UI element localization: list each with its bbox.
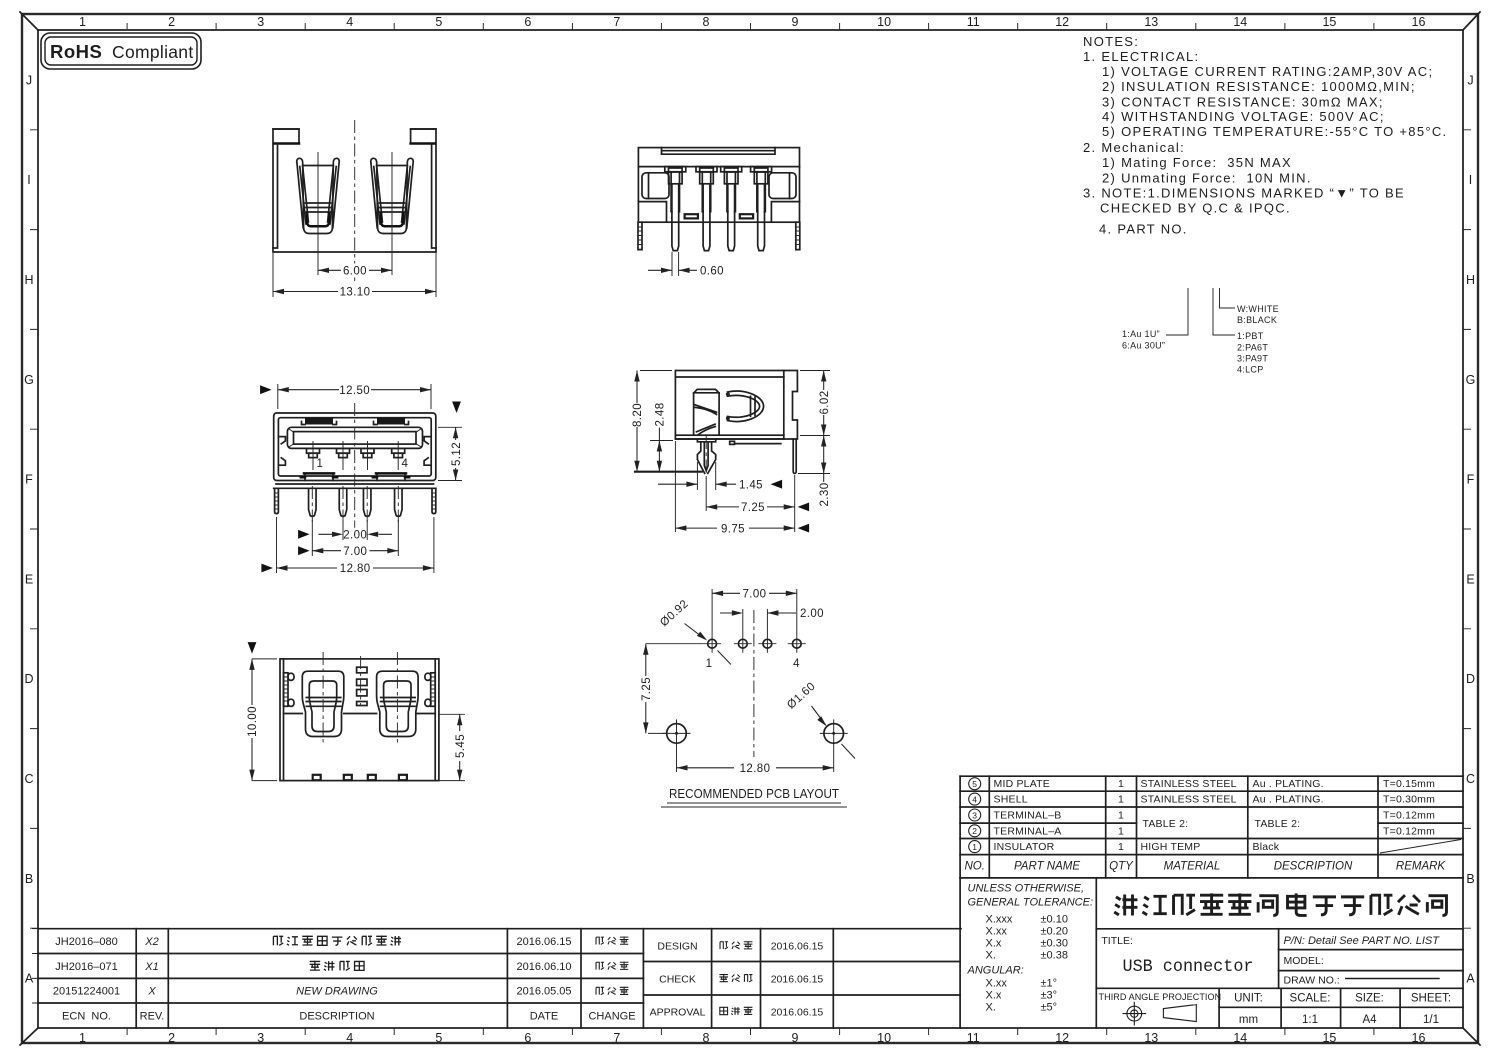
seating plane line [635,471,702,473]
revision table [32,929,961,1028]
svg-text:7: 7 [613,15,620,29]
svg-text:2016.06.15: 2016.06.15 [771,940,824,952]
svg-text:9: 9 [792,15,799,29]
svg-text:9.75: 9.75 [721,523,745,535]
left side cutout [642,173,669,199]
svg-text:J: J [1467,73,1473,87]
svg-text:HIGH TEMP: HIGH TEMP [1141,841,1201,853]
svg-text:C: C [24,772,33,786]
RoHS Compliant logo box [41,33,201,69]
svg-text:DATE: DATE [530,1011,559,1023]
svg-text:TERMINAL–B: TERMINAL–B [994,810,1062,822]
dimension 7.25 [639,644,666,734]
svg-text:4: 4 [346,1031,353,1045]
svg-text:10: 10 [877,1031,891,1045]
svg-text:2. Mechanical:: 2. Mechanical: [1083,140,1185,155]
svg-text:W:WHITE: W:WHITE [1237,304,1279,314]
grid column numbers top and ticks [79,15,1425,30]
svg-text:Au . PLATING.: Au . PLATING. [1253,794,1324,806]
svg-text:3) CONTACT RESISTANCE: 30mΩ MA: 3) CONTACT RESISTANCE: 30mΩ MAX; [1102,95,1384,110]
shell outer rect [274,413,436,481]
dimension 7.25 [706,478,809,514]
svg-text:X: X [147,986,156,998]
waist lines [284,713,436,715]
svg-text:X1: X1 [144,961,158,973]
svg-text:7.00: 7.00 [343,546,367,558]
svg-text:A: A [1466,972,1475,986]
svg-text:APPROVAL: APPROVAL [650,1006,706,1018]
svg-text:STAINLESS STEEL: STAINLESS STEEL [1141,778,1237,790]
svg-text:±0.38: ±0.38 [1041,950,1068,962]
svg-text:1.45: 1.45 [739,479,763,491]
center dash-dot line [753,610,755,757]
svg-text:8: 8 [703,15,710,29]
VIEW 2 back view with terminals [638,148,800,278]
svg-text:7: 7 [613,1031,620,1045]
svg-text:16: 16 [1412,1031,1426,1045]
terminals cross-sections [665,167,686,251]
body outline [273,129,436,252]
svg-text:7.00: 7.00 [743,589,767,601]
diameter 1.60 leader [785,680,855,758]
svg-text:G: G [24,373,34,387]
svg-text:±0.30: ±0.30 [1041,938,1068,950]
bottom band [675,435,783,439]
corner diagonal top-left [20,12,38,30]
svg-text:3. NOTE:1.DIMENSIONS MARKED “▼: 3. NOTE:1.DIMENSIONS MARKED “▼” TO BE [1083,185,1405,200]
dimension 6.00 [318,234,392,278]
VIEW 4 side view [631,371,831,536]
VIEW 3 front view [260,383,463,575]
dimension 7.00 [712,589,797,653]
svg-text:1: 1 [317,458,324,470]
svg-text:F: F [25,473,33,487]
svg-text:2.30: 2.30 [819,483,831,507]
svg-text:13: 13 [1144,1031,1158,1045]
svg-text:mm: mm [1239,1014,1258,1026]
svg-text:10: 10 [877,15,891,29]
dimension 12.80 [677,747,834,775]
svg-text:2) Unmating Force: 10N MIN.: 2) Unmating Force: 10N MIN. [1102,170,1312,185]
part number legend tree [1122,288,1279,375]
svg-text:6.00: 6.00 [343,266,367,278]
right tulip contact [371,152,414,234]
svg-text:0.60: 0.60 [700,266,724,278]
corner diagonal bottom-left [20,1028,38,1045]
svg-text:CHANGE: CHANGE [588,1011,635,1023]
solder pins [309,488,317,516]
svg-text:I: I [27,173,30,187]
svg-text:6: 6 [524,15,531,29]
svg-text:±0.10: ±0.10 [1041,914,1068,926]
svg-text:DRAW NO.:: DRAW NO.: [1284,975,1340,987]
svg-text:QTY: QTY [1109,861,1134,873]
svg-text:11: 11 [967,15,980,29]
bottom solder tabs [313,775,321,780]
svg-text:H: H [24,273,33,287]
svg-text:2: 2 [168,15,175,29]
grid column numbers bottom and ticks [79,1028,1425,1045]
right mounting leg [432,488,436,513]
svg-text:5: 5 [972,779,977,789]
row extension line [646,643,703,645]
svg-text:NEW DRAWING: NEW DRAWING [296,986,378,998]
svg-text:I: I [1469,173,1472,187]
svg-text:MATERIAL: MATERIAL [1164,861,1221,873]
svg-text:X.xx: X.xx [986,978,1008,990]
svg-text:2) INSULATION RESISTANCE: 1000: 2) INSULATION RESISTANCE: 1000MΩ,MIN; [1102,79,1416,94]
svg-text:X.xxx: X.xxx [986,914,1013,926]
left step [638,202,666,223]
inner side walls [273,144,436,249]
pin holes 0.92 [708,639,717,648]
svg-text:ECN NO.: ECN NO. [62,1011,111,1023]
svg-text:USB connector: USB connector [1123,957,1254,977]
svg-text:3: 3 [257,15,264,29]
svg-text:14: 14 [1233,1031,1247,1045]
dimension 2.00 [277,517,434,573]
shell inner rect [278,418,431,476]
svg-text:1: 1 [1118,810,1124,822]
side latch detail right [424,437,431,466]
right mounting flange [784,371,798,440]
svg-text:E: E [1466,572,1474,586]
right hatched bracket [425,673,435,707]
dimension 2.00 [720,608,824,653]
side latch detail left [278,437,285,466]
svg-text:10.00: 10.00 [247,706,259,737]
snap-in peg below [697,439,715,442]
svg-text:7.25: 7.25 [741,502,765,514]
svg-text:MID PLATE: MID PLATE [994,778,1050,790]
svg-text:±3°: ±3° [1041,990,1058,1002]
inspection marker above 5.12 [452,402,461,414]
small latch windows [685,214,698,218]
svg-text:1: 1 [1118,794,1124,806]
svg-text:5.45: 5.45 [455,734,467,758]
svg-text:13: 13 [1144,15,1158,29]
svg-text:4) WITHSTANDING VOLTAGE: 500V: 4) WITHSTANDING VOLTAGE: 500V AC; [1102,109,1385,124]
dimension 12.50 [278,383,431,409]
svg-text:12: 12 [1055,1031,1069,1045]
svg-text:5) OPERATING TEMPERATURE:-55°C: 5) OPERATING TEMPERATURE:-55°C TO +85°C. [1102,124,1447,139]
svg-text:Black: Black [1253,841,1280,853]
svg-text:JH2016–080: JH2016–080 [55,936,117,948]
svg-text:15: 15 [1322,1031,1336,1045]
svg-text:X.x: X.x [986,938,1002,950]
svg-text:2016.06.15: 2016.06.15 [516,936,571,948]
svg-text:P/N: Detail See PART NO. LIST: P/N: Detail See PART NO. LIST [1284,935,1441,947]
svg-text:CHECK: CHECK [659,973,696,985]
svg-text:12.80: 12.80 [340,563,371,575]
right side cutout [769,173,796,199]
svg-text:6.02: 6.02 [819,391,831,415]
center stack windows [357,656,367,706]
svg-text:5.12: 5.12 [451,442,463,466]
VIEW 5 top view [246,642,467,781]
svg-text:UNIT:: UNIT: [1234,993,1263,1005]
big hole left 1.60 [663,719,691,747]
svg-text:1: 1 [79,1031,86,1045]
svg-text:12.80: 12.80 [740,763,771,775]
left shell wing [302,671,344,736]
svg-text:GENERAL TOLERANCE:: GENERAL TOLERANCE: [968,897,1094,909]
dimension 5.12 [438,427,463,480]
approval block [643,929,960,1028]
company name (CJK) [1096,893,1463,928]
svg-text:8: 8 [703,1031,710,1045]
svg-text:6:Au 30U”: 6:Au 30U” [1122,341,1165,351]
svg-text:13.10: 13.10 [340,287,371,299]
dimension 10.00 [246,659,278,781]
svg-text:DESCRIPTION: DESCRIPTION [299,1011,374,1023]
dimension 6.02 [800,371,831,436]
svg-text:T=0.15mm: T=0.15mm [1383,778,1435,790]
corner diagonal bottom-right [1463,1028,1480,1045]
right step [771,202,799,223]
svg-text:X.: X. [986,950,996,962]
svg-text:REV.: REV. [140,1011,165,1023]
svg-text:4: 4 [346,15,353,29]
svg-text:X2: X2 [144,936,158,948]
right mounting leg [796,222,800,249]
left hatched bracket [284,673,295,707]
dimension 7.00 [298,544,398,558]
svg-text:14: 14 [1233,15,1247,29]
big hole right 1.60 [820,719,848,747]
svg-text:1: 1 [1118,778,1124,790]
svg-text:X.xx: X.xx [986,926,1008,938]
svg-text:UNLESS OTHERWISE,: UNLESS OTHERWISE, [968,883,1085,895]
VIEW 1 bottom view of connector [273,120,436,299]
svg-text:1: 1 [1118,841,1124,853]
svg-text:Compliant: Compliant [112,42,193,62]
svg-text:1: 1 [972,842,977,852]
tick marks top [127,23,1374,30]
svg-text:G: G [1466,373,1476,387]
svg-text:2:PA6T: 2:PA6T [1237,343,1268,353]
svg-text:JH2016–071: JH2016–071 [55,961,117,973]
svg-text:1: 1 [1118,825,1124,837]
top latch tabs (black) [305,418,333,425]
svg-text:2.48: 2.48 [655,403,667,427]
svg-text:1: 1 [79,15,86,29]
svg-text:C: C [1466,772,1475,786]
left tulip contact [297,152,340,234]
svg-text:12.50: 12.50 [339,385,370,397]
terminal block inside [694,389,720,435]
left mounting leg [275,488,279,513]
svg-text:1) VOLTAGE CURRENT RATING:2AMP: 1) VOLTAGE CURRENT RATING:2AMP,30V AC; [1102,64,1433,79]
svg-text:1:Au 1U”: 1:Au 1U” [1122,329,1160,339]
svg-text:MODEL:: MODEL: [1284,955,1324,967]
diameter 0.92 leader [658,598,731,665]
svg-text:SCALE:: SCALE: [1290,993,1331,1005]
svg-text:2016.06.10: 2016.06.10 [516,961,571,973]
svg-text:A4: A4 [1362,1014,1377,1026]
parts table [960,776,1463,878]
svg-text:1:1: 1:1 [1302,1014,1318,1026]
svg-text:NO.: NO. [964,861,984,873]
svg-text:2.00: 2.00 [800,608,824,620]
svg-text:2016.06.15: 2016.06.15 [771,973,824,985]
svg-text:T=0.30mm: T=0.30mm [1383,794,1435,806]
svg-text:CHECKED BY Q.C & IPQC.: CHECKED BY Q.C & IPQC. [1100,201,1291,216]
svg-text:NOTES:: NOTES: [1083,34,1139,49]
grid row letters left and ticks [24,73,38,985]
inspection marker triangle [248,642,257,654]
notes text block [1083,34,1447,236]
svg-text:4. PART NO.: 4. PART NO. [1099,221,1188,236]
top seam strip [662,148,776,155]
svg-text:TERMINAL–A: TERMINAL–A [994,825,1062,837]
svg-text:2: 2 [972,826,977,836]
base plate below shell [274,484,436,488]
svg-text:T=0.12mm: T=0.12mm [1383,810,1435,822]
right shell wing [377,671,419,736]
shell outline [638,148,799,223]
svg-text:5: 5 [435,1031,442,1045]
svg-text:15: 15 [1322,15,1336,29]
svg-text:D: D [1466,672,1475,686]
svg-text:2: 2 [168,1031,175,1045]
dimension 8.20 [631,371,673,472]
bottom tabs [305,473,405,480]
center dash-dot line [354,403,356,528]
svg-text:1/1: 1/1 [1423,1014,1439,1026]
svg-text:STAINLESS STEEL: STAINLESS STEEL [1141,794,1237,806]
spring contact loop [728,391,764,421]
title block [1096,929,1463,1028]
dimension 2.48 [650,403,673,472]
svg-text:7.25: 7.25 [641,677,653,701]
svg-text:9: 9 [792,1031,799,1045]
svg-text:REMARK: REMARK [1396,861,1447,873]
svg-text:SHELL: SHELL [994,794,1028,806]
svg-text:RoHS: RoHS [50,41,102,62]
svg-text:PART NAME: PART NAME [1014,861,1080,873]
svg-text:4: 4 [793,658,800,670]
svg-text:INSULATOR: INSULATOR [994,841,1055,853]
svg-text:RECOMMENDED PCB LAYOUT: RECOMMENDED PCB LAYOUT [669,786,839,801]
svg-text:16: 16 [1412,15,1426,29]
svg-text:TABLE 2:: TABLE 2: [1255,818,1301,830]
svg-text:THIRD ANGLE PROJECTION: THIRD ANGLE PROJECTION [1099,992,1222,1002]
body outline [675,371,783,436]
grid row letters right and ticks [1463,73,1475,985]
svg-text:1) Mating Force: 35N MAX: 1) Mating Force: 35N MAX [1102,155,1292,170]
body outline [280,659,439,781]
svg-text:8.20: 8.20 [632,403,644,427]
dimension 13.10 [273,253,436,299]
svg-text:±5°: ±5° [1041,1002,1058,1014]
svg-text:11: 11 [967,1031,980,1045]
four contacts under tongue [307,448,320,453]
svg-text:SIZE:: SIZE: [1355,993,1384,1005]
svg-text:X.: X. [986,1002,996,1014]
center dash-dot line [354,120,356,282]
svg-text:6: 6 [524,1031,531,1045]
dimension 5.45 [439,714,467,780]
svg-text:3: 3 [972,810,977,820]
corner notch thick lines [274,142,435,145]
svg-text:T=0.12mm: T=0.12mm [1383,825,1435,837]
svg-text:±1°: ±1° [1041,978,1058,990]
svg-text:DESCRIPTION: DESCRIPTION [1274,861,1353,873]
svg-text:4:LCP: 4:LCP [1237,365,1264,375]
svg-text:±0.20: ±0.20 [1041,926,1068,938]
terminal tail below body [730,441,735,444]
corner diagonal top-right [1463,12,1480,30]
left mounting leg [638,222,642,249]
right solder pin [793,439,796,473]
svg-text:2.00: 2.00 [343,530,367,542]
svg-text:Au . PLATING.: Au . PLATING. [1253,778,1324,790]
dimension 1.45 [658,462,782,491]
dimension 9.75 [675,441,809,535]
svg-text:1. ELECTRICAL:: 1. ELECTRICAL: [1083,49,1199,64]
svg-text:DESIGN: DESIGN [657,940,697,952]
svg-text:H: H [1466,273,1475,287]
svg-text:12: 12 [1055,15,1069,29]
svg-text:2016.06.15: 2016.06.15 [771,1006,824,1018]
svg-text:3:PA9T: 3:PA9T [1237,354,1268,364]
tolerance block [960,878,1096,1028]
svg-text:B:BLACK: B:BLACK [1237,315,1277,325]
dimension 12.80 [261,562,434,576]
svg-text:X.x: X.x [986,990,1002,1002]
svg-text:E: E [25,572,33,586]
svg-text:4: 4 [972,794,977,804]
inspection marker triangle left of 12.50 [260,385,272,394]
dimension 0.60 [648,252,724,278]
svg-text:1:PBT: 1:PBT [1237,331,1264,341]
svg-text:1: 1 [706,658,713,670]
svg-text:TABLE 2:: TABLE 2: [1143,818,1189,830]
svg-text:TITLE:: TITLE: [1101,935,1133,947]
tongue with bevel [287,427,422,448]
svg-text:5: 5 [435,15,442,29]
svg-text:SHEET:: SHEET: [1411,993,1451,1005]
dimension 2.30 [798,436,831,508]
horizontal divider [638,166,799,168]
svg-text:J: J [26,73,32,87]
svg-text:4: 4 [402,458,409,470]
svg-text:ANGULAR:: ANGULAR: [967,965,1024,977]
svg-text:B: B [1466,872,1474,886]
VIEW 6 recommended PCB layout [639,589,855,808]
svg-text:D: D [24,672,33,686]
svg-text:3: 3 [257,1031,264,1045]
svg-text:20151224001: 20151224001 [53,986,120,998]
svg-text:B: B [25,872,33,886]
svg-text:F: F [1467,473,1475,487]
svg-text:2016.05.05: 2016.05.05 [516,986,571,998]
